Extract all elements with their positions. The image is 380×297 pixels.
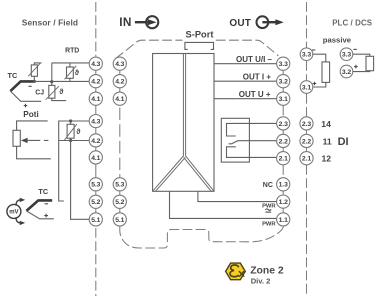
svg-text:TC: TC bbox=[38, 187, 48, 196]
svg-text:ϑ: ϑ bbox=[76, 127, 81, 136]
svg-text:passive: passive bbox=[323, 35, 352, 44]
load resistor option B bbox=[366, 56, 374, 70]
wire: long feeder down to 5.1 bbox=[71, 141, 90, 220]
label plus option A bbox=[313, 82, 317, 86]
mV arrow bottom bbox=[16, 217, 20, 223]
resistor: CJ (theta) bbox=[46, 82, 59, 100]
zone boundary: PLC/DCS dashed vertical bbox=[306, 2, 308, 296]
svg-text:4.2: 4.2 bbox=[91, 138, 100, 145]
potentiometer body bbox=[13, 130, 20, 146]
svg-text:PWR: PWR bbox=[262, 222, 276, 228]
label plus TC upper bbox=[24, 104, 28, 108]
zone boundary: device outline top-right diagonal bbox=[216, 40, 279, 56]
wire: poti bottom row 4.1 bbox=[17, 146, 51, 159]
terminal 5.2 sensor col bbox=[89, 195, 102, 208]
zone boundary: dashes between input terminal groups bbox=[119, 108, 121, 178]
isolator isolation Y symbol bbox=[153, 54, 213, 192]
svg-text:OUT U/I –: OUT U/I – bbox=[236, 55, 273, 64]
switch blade wire to 2.2 bbox=[229, 141, 277, 144]
svg-text:4.3: 4.3 bbox=[115, 61, 124, 68]
wire: row 4.2 bbox=[34, 80, 89, 82]
terminal 3.2 device bbox=[277, 75, 290, 88]
ticks PLC column bbox=[306, 130, 308, 152]
wire: row 4.3 poti group with corner down bbox=[59, 121, 90, 201]
passive load option A wiring bbox=[313, 54, 326, 87]
wire+contact to 2.1 bbox=[227, 147, 277, 158]
terminal 4.1 poti sensor col bbox=[89, 151, 102, 164]
thermocouple TC (lower) chevron bbox=[26, 200, 52, 211]
svg-text:3.1: 3.1 bbox=[279, 96, 288, 103]
label minus option B bbox=[353, 48, 356, 50]
terminal 4.1 sensor col bbox=[89, 92, 102, 105]
svg-text:OUT U +: OUT U + bbox=[239, 90, 271, 99]
wire: row 4.2 poti group bbox=[59, 140, 90, 142]
svg-text:mV: mV bbox=[9, 210, 18, 216]
terminal 3.1 device bbox=[277, 92, 290, 105]
resistor: poti group RTD (theta) bbox=[65, 121, 77, 141]
terminal 1.2 device bbox=[277, 195, 290, 208]
thermocouple TC (upper) chevron bbox=[10, 81, 34, 91]
svg-text:OUT: OUT bbox=[229, 18, 251, 29]
terminal 2.3 device bbox=[277, 117, 290, 130]
terminal 5.3 device bbox=[113, 178, 126, 191]
terminal 2.3 PLC bbox=[300, 117, 313, 130]
label plus option B bbox=[354, 65, 358, 69]
mV source circle bbox=[7, 204, 21, 218]
wire: OUT U + bbox=[214, 98, 277, 100]
svg-text:IN: IN bbox=[119, 15, 132, 29]
svg-text:12: 12 bbox=[322, 154, 332, 164]
terminal 4.2 device bbox=[113, 75, 126, 88]
svg-text:ϑ: ϑ bbox=[75, 68, 80, 77]
svg-text:5.1: 5.1 bbox=[115, 217, 124, 224]
terminal 3.3 PLC passive A bbox=[300, 48, 313, 61]
zone boundary: dashes between output terminal groups bbox=[282, 106, 284, 178]
wire: CJ bottom stub row 4.1 bbox=[52, 98, 66, 100]
OUT icon bbox=[229, 16, 283, 29]
svg-text:3.3: 3.3 bbox=[302, 52, 311, 59]
svg-text:2.1: 2.1 bbox=[302, 156, 311, 163]
svg-text:5.2: 5.2 bbox=[115, 199, 124, 206]
svg-text:1.3: 1.3 bbox=[279, 182, 288, 189]
svg-text:4.1: 4.1 bbox=[91, 96, 100, 103]
svg-text:RTD: RTD bbox=[65, 48, 79, 55]
svg-text:4.1: 4.1 bbox=[115, 96, 124, 103]
IN icon bbox=[119, 15, 158, 29]
digital input switch box bbox=[221, 118, 249, 162]
wire: OUT I + bbox=[214, 80, 277, 82]
svg-text:5.1: 5.1 bbox=[91, 217, 100, 224]
svg-text:Poti: Poti bbox=[23, 110, 38, 119]
terminal 4.2 sensor col bbox=[89, 75, 102, 88]
label minus option A bbox=[312, 49, 315, 51]
svg-text:5.2: 5.2 bbox=[91, 199, 100, 206]
svg-text:4.1: 4.1 bbox=[91, 155, 100, 162]
terminal 4.3 poti sensor col bbox=[89, 115, 102, 128]
resistor: RTD (theta) bbox=[65, 63, 77, 82]
wire: TC compensation resistor top stub bbox=[34, 63, 41, 65]
svg-text:S-Port: S-Port bbox=[186, 29, 214, 39]
svg-text:2.3: 2.3 bbox=[279, 121, 288, 128]
terminal 4.1 device bbox=[113, 92, 126, 105]
svg-text:Sensor / Field: Sensor / Field bbox=[22, 18, 78, 28]
terminal 3.2 passive B bbox=[340, 65, 353, 78]
zone boundary: device outline top-left diagonal bbox=[116, 40, 183, 58]
terminal 3.1 PLC passive A bbox=[300, 81, 313, 94]
ticks device input column bbox=[119, 70, 121, 213]
svg-text:3.1: 3.1 bbox=[302, 84, 311, 91]
mV arrow top bbox=[16, 200, 20, 206]
svg-text:4.3: 4.3 bbox=[91, 61, 100, 68]
node: junction dot poti 4.2 bbox=[69, 139, 72, 142]
terminal 3.3 device bbox=[277, 57, 290, 70]
passive load option B wiring bbox=[353, 54, 370, 71]
terminal 4.2 poti sensor col bbox=[89, 134, 102, 147]
wire: power supply to 1.1 bbox=[170, 191, 277, 218]
terminal 2.1 device bbox=[277, 152, 290, 165]
svg-text:2.2: 2.2 bbox=[302, 138, 311, 145]
wire: OUT U/I - bbox=[214, 63, 277, 65]
svg-text:DI: DI bbox=[338, 136, 349, 148]
node: junction dot TC minus bbox=[33, 80, 36, 83]
potentiometer wiper arrow bbox=[21, 138, 28, 143]
node: junction dot poti 4.3 bbox=[69, 119, 72, 122]
terminal 2.1 PLC bbox=[300, 152, 313, 165]
load resistor option A bbox=[322, 62, 330, 83]
svg-text:3.2: 3.2 bbox=[279, 79, 288, 86]
svg-text:14: 14 bbox=[321, 119, 331, 129]
svg-text:ϑ: ϑ bbox=[59, 87, 64, 96]
svg-text:CJ: CJ bbox=[35, 89, 44, 96]
svg-text:2.1: 2.1 bbox=[279, 156, 288, 163]
svg-text:3.2: 3.2 bbox=[342, 69, 351, 76]
wire+contact to 2.3 bbox=[227, 123, 277, 136]
wire: poti top to 4.3 stub bbox=[17, 121, 48, 130]
terminal 5.2 device bbox=[113, 195, 126, 208]
zone boundary: device outline bottom meander bbox=[120, 226, 284, 248]
svg-text:PWR: PWR bbox=[262, 203, 276, 209]
svg-text:2.2: 2.2 bbox=[279, 138, 288, 145]
terminal 1.3 device bbox=[277, 178, 290, 191]
svg-text:NC: NC bbox=[263, 182, 273, 189]
ticks device output column bbox=[282, 70, 284, 213]
Ex hexagon logo bbox=[226, 263, 246, 280]
svg-text:4.2: 4.2 bbox=[91, 79, 100, 86]
svg-text:5.3: 5.3 bbox=[115, 182, 124, 189]
svg-text:Div. 2: Div. 2 bbox=[251, 276, 271, 285]
node: junction dot CJ bbox=[50, 80, 53, 83]
resistor: TC cold-junction compensation (theta) bbox=[28, 63, 40, 81]
svg-text:3.3: 3.3 bbox=[342, 52, 351, 59]
svg-text:1.2: 1.2 bbox=[279, 199, 288, 206]
svg-text:11: 11 bbox=[323, 136, 332, 146]
terminal 2.2 PLC bbox=[300, 134, 313, 147]
terminal 4.3 sensor col bbox=[89, 57, 102, 70]
terminal 2.2 device bbox=[277, 134, 290, 147]
ticks sensor column bbox=[95, 70, 97, 213]
isolator device U1 body bbox=[153, 54, 214, 192]
wire: power supply to 1.2 bbox=[198, 191, 277, 201]
terminal 5.1 sensor col bbox=[89, 213, 102, 226]
AC/DC symbol bbox=[265, 209, 271, 210]
svg-text:PLC / DCS: PLC / DCS bbox=[332, 18, 372, 27]
svg-text:OUT I +: OUT I + bbox=[243, 73, 272, 82]
terminal 4.3 device bbox=[113, 57, 126, 70]
terminal 5.3 sensor col bbox=[89, 178, 102, 191]
svg-text:4.2: 4.2 bbox=[115, 79, 124, 86]
zone boundary: sensor/field dashed vertical bbox=[95, 2, 97, 296]
svg-text:2.3: 2.3 bbox=[302, 121, 311, 128]
svg-text:Zone 2: Zone 2 bbox=[250, 266, 284, 277]
svg-text:3.3: 3.3 bbox=[279, 61, 288, 68]
svg-text:5.3: 5.3 bbox=[91, 182, 100, 189]
label minus TC lower bbox=[45, 203, 48, 205]
wire: RTD row 4.3 bbox=[52, 62, 90, 64]
S-Port connector bracket bbox=[185, 42, 214, 49]
svg-text:TC: TC bbox=[8, 71, 18, 80]
terminal 3.3 passive B bbox=[340, 48, 353, 61]
wire: vertical 4.3 to junction bbox=[51, 63, 53, 82]
svg-text:1.1: 1.1 bbox=[279, 217, 288, 224]
svg-text:4.3: 4.3 bbox=[91, 119, 100, 126]
terminal 5.1 device bbox=[113, 213, 126, 226]
label minus TC upper bbox=[29, 85, 32, 87]
label plus TC lower bbox=[44, 214, 48, 218]
terminal 1.1 device bbox=[277, 213, 290, 226]
